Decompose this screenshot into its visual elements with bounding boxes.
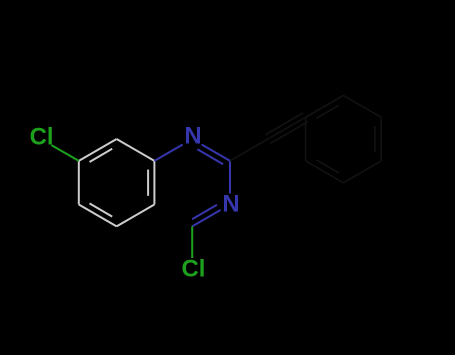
svg-text:N: N (222, 191, 239, 218)
svg-text:N: N (184, 123, 201, 150)
svg-text:Cl: Cl (182, 255, 206, 282)
svg-text:Cl: Cl (30, 123, 54, 150)
